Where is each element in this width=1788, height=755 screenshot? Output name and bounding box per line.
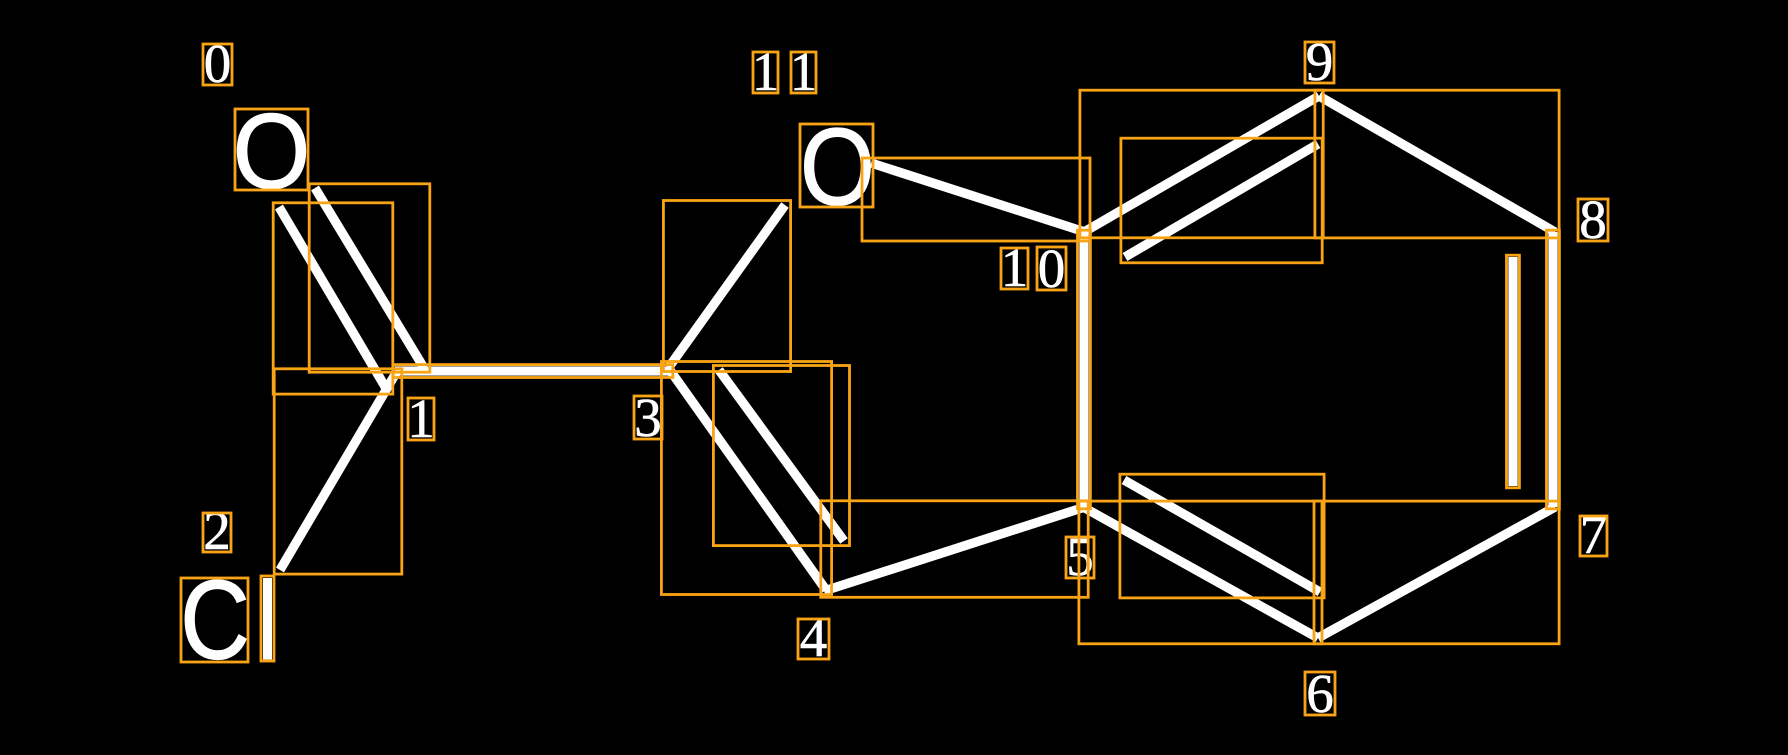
bounding box of label atom index 5 xyxy=(1066,537,1094,578)
bounding box of bond C6-C7 xyxy=(1314,501,1559,644)
bounding box of label atom index 10 digit '1' xyxy=(1001,248,1028,289)
bond C3-O11 xyxy=(669,205,785,367)
bounding box of bond O11-C10 xyxy=(862,158,1090,241)
bounding box of label atom index 2 xyxy=(203,513,231,552)
bounding box of bond C7=C8 main line xyxy=(1547,230,1560,509)
bounding box of label atom index 11 second digit '1' xyxy=(791,52,816,93)
bounding box of label atom index 9 xyxy=(1305,42,1334,83)
bounding box of bond C5=C6 main line xyxy=(1079,501,1322,644)
bounding box of label atom index 0 xyxy=(203,44,232,85)
bounding box of bond C9=C10 inner line xyxy=(1121,138,1322,263)
bounding box of bond C3=C4 inner line xyxy=(713,366,849,546)
bounding box of label atom index 8 xyxy=(1578,199,1608,241)
atom O11 (furan ring oxygen) xyxy=(800,106,875,228)
bond C1=O0 double line outer xyxy=(279,207,387,390)
bond C5=C6 inner line xyxy=(1124,480,1320,592)
atom Cl2 chlorine "C" xyxy=(180,558,250,684)
svg-text:C: C xyxy=(180,558,250,684)
bounding box of bond C1=O0 double line outer xyxy=(273,203,393,394)
bounding box of label atom index 10 digit '0' xyxy=(1037,247,1066,290)
bond C3=C4 inner line xyxy=(719,370,844,541)
bounding box of bond C4-C5 xyxy=(821,501,1088,598)
bond C1-C3 xyxy=(395,366,671,375)
bounding box of bond C5-C10 ring fusion xyxy=(1078,230,1091,509)
bond C9=C10 inner line xyxy=(1125,144,1318,257)
bounding box of bond C3=C4 main line xyxy=(661,362,831,595)
bond C3=C4 main line xyxy=(667,366,826,590)
bounding box of bond C7=C8 inner line xyxy=(1507,255,1520,488)
bond C7=C8 main line xyxy=(1548,232,1557,507)
bounding box of label atom index 11 first digit '1' xyxy=(753,52,778,93)
bounding box of bond C1=O0 double line inner xyxy=(309,184,430,372)
bond C6-C7 xyxy=(1318,507,1555,638)
atom Cl2 chlorine "l" (drawn as bar) xyxy=(263,578,272,660)
bond C1-Cl2 xyxy=(280,373,396,570)
bounding box of bond C3-O11 xyxy=(663,201,790,372)
bounding box of atom Cl2 'l' glyph box xyxy=(261,576,274,661)
bounding box of atom O11 glyph box xyxy=(800,124,873,207)
bond C5-C10 ring fusion xyxy=(1079,232,1088,507)
bond O11-C10 xyxy=(871,163,1085,232)
bounding box of label atom index 4 xyxy=(798,619,829,659)
bounding box of bond C1-Cl2 xyxy=(274,369,402,574)
bounding box of bond C8-C9 xyxy=(1315,90,1559,238)
bond C5=C6 main line xyxy=(1083,507,1318,638)
atom O0 (carbonyl oxygen) xyxy=(233,91,311,211)
bond C1=O0 double line inner xyxy=(315,188,424,368)
bounding box of atom O0 glyph box xyxy=(235,109,308,190)
bond C9=C10 main line xyxy=(1084,96,1319,232)
bounding box of label atom index 3 xyxy=(634,396,662,439)
bounding box of label atom index 1 xyxy=(408,398,434,440)
bond C8-C9 xyxy=(1319,96,1555,232)
bounding box of atom Cl2 'C' glyph box xyxy=(181,578,248,662)
bounding box of bond C5=C6 inner line xyxy=(1120,474,1324,598)
bounding box of bond C9=C10 main line xyxy=(1080,90,1323,238)
bounding box of label atom index 7 xyxy=(1580,516,1607,556)
bounding box of label atom index 6 xyxy=(1305,672,1335,715)
bond C7=C8 inner line xyxy=(1508,257,1517,486)
bond C4-C5 xyxy=(824,507,1085,591)
bounding box of bond C1-C3 xyxy=(393,365,673,378)
